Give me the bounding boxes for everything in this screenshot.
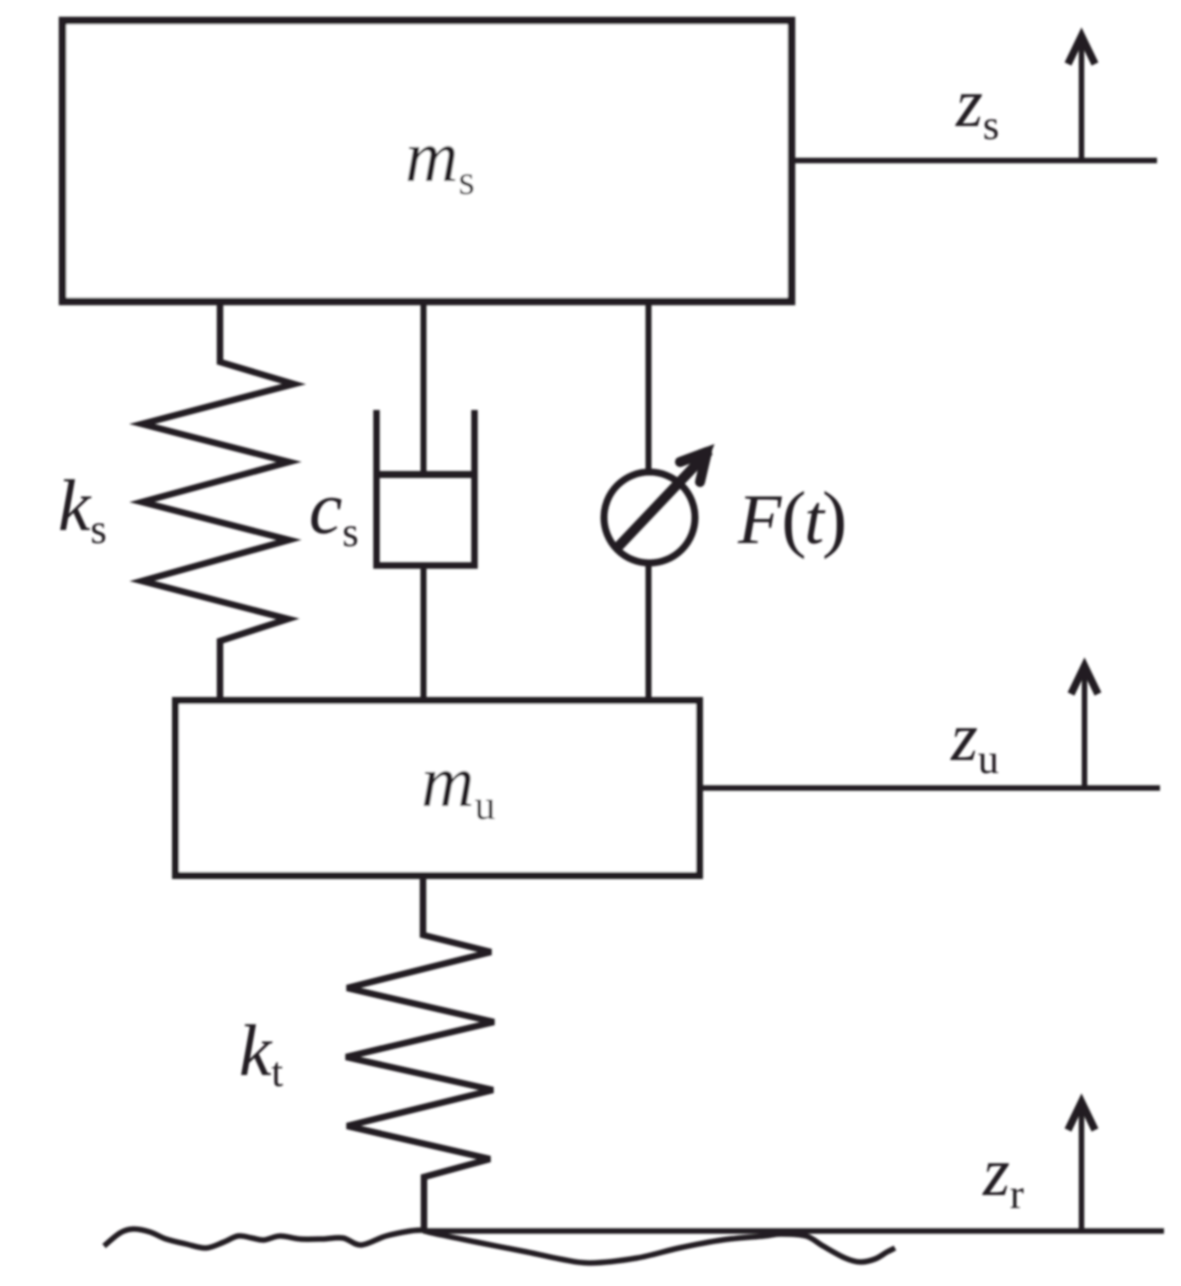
damper cs: cylinder bbox=[377, 410, 475, 566]
road surface straight line bbox=[423, 1228, 1164, 1234]
label z_s bbox=[955, 94, 998, 139]
label m_s bbox=[408, 146, 474, 194]
spring ks bbox=[142, 303, 294, 699]
damper cs: piston plate bbox=[376, 471, 475, 478]
label z_r bbox=[982, 1163, 1023, 1208]
damper cs: piston rod bbox=[421, 303, 427, 474]
z_u arrow shaft bbox=[1082, 668, 1088, 788]
damper cs: lower rod bbox=[421, 565, 427, 699]
actuator F(t): arrowhead lower barb bbox=[700, 452, 707, 482]
label m_u bbox=[424, 771, 495, 819]
z_s arrowhead bbox=[1068, 36, 1095, 64]
actuator F(t): arrow shaft bbox=[617, 451, 709, 548]
road surface right wavy line bbox=[423, 1230, 895, 1263]
z_r arrowhead bbox=[1068, 1102, 1095, 1130]
actuator F(t): arrowhead tip bbox=[698, 444, 715, 461]
z_r arrow shaft bbox=[1079, 1104, 1085, 1231]
label k_t bbox=[241, 1024, 283, 1086]
label z_u bbox=[950, 728, 998, 773]
spring kt bbox=[346, 875, 494, 1231]
actuator F(t): arrowhead upper barb bbox=[680, 452, 707, 462]
z_s arrow shaft bbox=[1079, 38, 1085, 160]
road surface left wavy line bbox=[104, 1229, 423, 1248]
label k_s bbox=[60, 479, 105, 543]
actuator F(t): upper lead bbox=[646, 303, 652, 473]
z_u arrowhead bbox=[1071, 666, 1098, 694]
z_u reference line bbox=[703, 785, 1160, 791]
mass mu box bbox=[176, 701, 700, 876]
actuator F(t): lower lead bbox=[646, 562, 652, 699]
label F(t) bbox=[738, 491, 844, 559]
actuator F(t): circle bbox=[604, 472, 695, 563]
mass ms box bbox=[63, 21, 792, 302]
z_s reference line bbox=[793, 158, 1157, 164]
label c_s bbox=[311, 498, 357, 547]
